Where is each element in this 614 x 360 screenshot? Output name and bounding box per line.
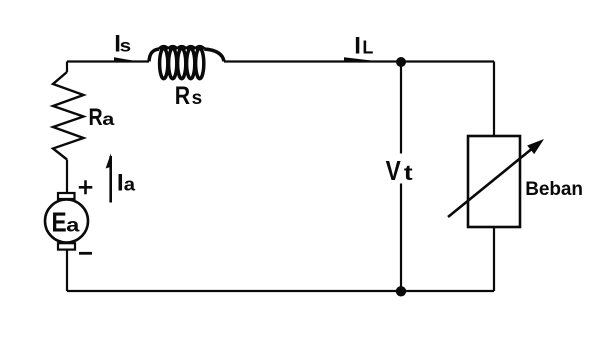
- svg-text:Beban: Beban: [525, 179, 583, 200]
- svg-text:t: t: [404, 161, 413, 185]
- svg-text:s: s: [192, 88, 203, 109]
- svg-text:E: E: [52, 207, 67, 238]
- svg-text:a: a: [124, 174, 136, 195]
- svg-text:I: I: [354, 33, 361, 60]
- svg-text:a: a: [66, 215, 80, 236]
- svg-text:R: R: [175, 81, 191, 109]
- svg-text:s: s: [120, 36, 132, 56]
- svg-text:R: R: [89, 103, 103, 131]
- svg-text:L: L: [362, 38, 373, 58]
- svg-text:a: a: [102, 110, 115, 130]
- svg-text:V: V: [386, 156, 401, 187]
- svg-text:I: I: [117, 170, 124, 197]
